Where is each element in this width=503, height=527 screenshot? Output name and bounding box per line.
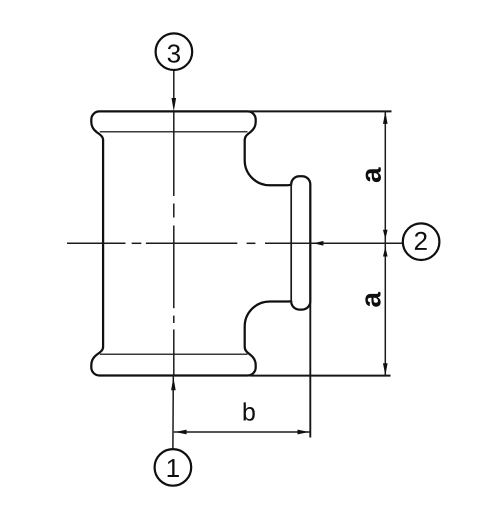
top band inner line: [100, 131, 248, 133]
arrow a bottom (down): [383, 363, 388, 376]
label a top (rotated): [366, 167, 381, 182]
branch band inner line: [290, 184, 292, 303]
arrow a mid lower (up): [383, 247, 388, 257]
balloon digit 2: [415, 232, 427, 250]
circle 2: [403, 223, 440, 260]
arrow b right: [298, 430, 309, 435]
label a bottom (rotated): [365, 292, 380, 307]
arrow leader 1 (up): [171, 377, 176, 390]
dimension line a (vertical): [384, 111, 386, 375]
label b: [244, 402, 255, 420]
arrow leader 2 (left): [313, 241, 324, 246]
circle 3: [156, 33, 193, 70]
leader line circle 3: [173, 70, 175, 100]
arrow b left: [175, 430, 186, 435]
horizontal centerline: [67, 242, 403, 244]
leader line circle 1: [172, 376, 174, 450]
vertical centerline: [173, 111, 175, 375]
balloon digit 1: [168, 459, 179, 477]
extension line top: [250, 110, 392, 112]
dimension line b (horizontal): [174, 431, 310, 433]
arrow a top (up): [383, 111, 388, 124]
extension line bottom: [250, 375, 391, 377]
arrow leader 3 (down): [172, 98, 177, 111]
tee fitting body outline: [91, 111, 310, 375]
extension line b right: [309, 302, 311, 438]
arrow a mid upper (down): [383, 230, 388, 240]
bottom band inner line: [100, 353, 248, 355]
balloon digit 3: [168, 44, 180, 62]
circle 1: [155, 449, 192, 486]
